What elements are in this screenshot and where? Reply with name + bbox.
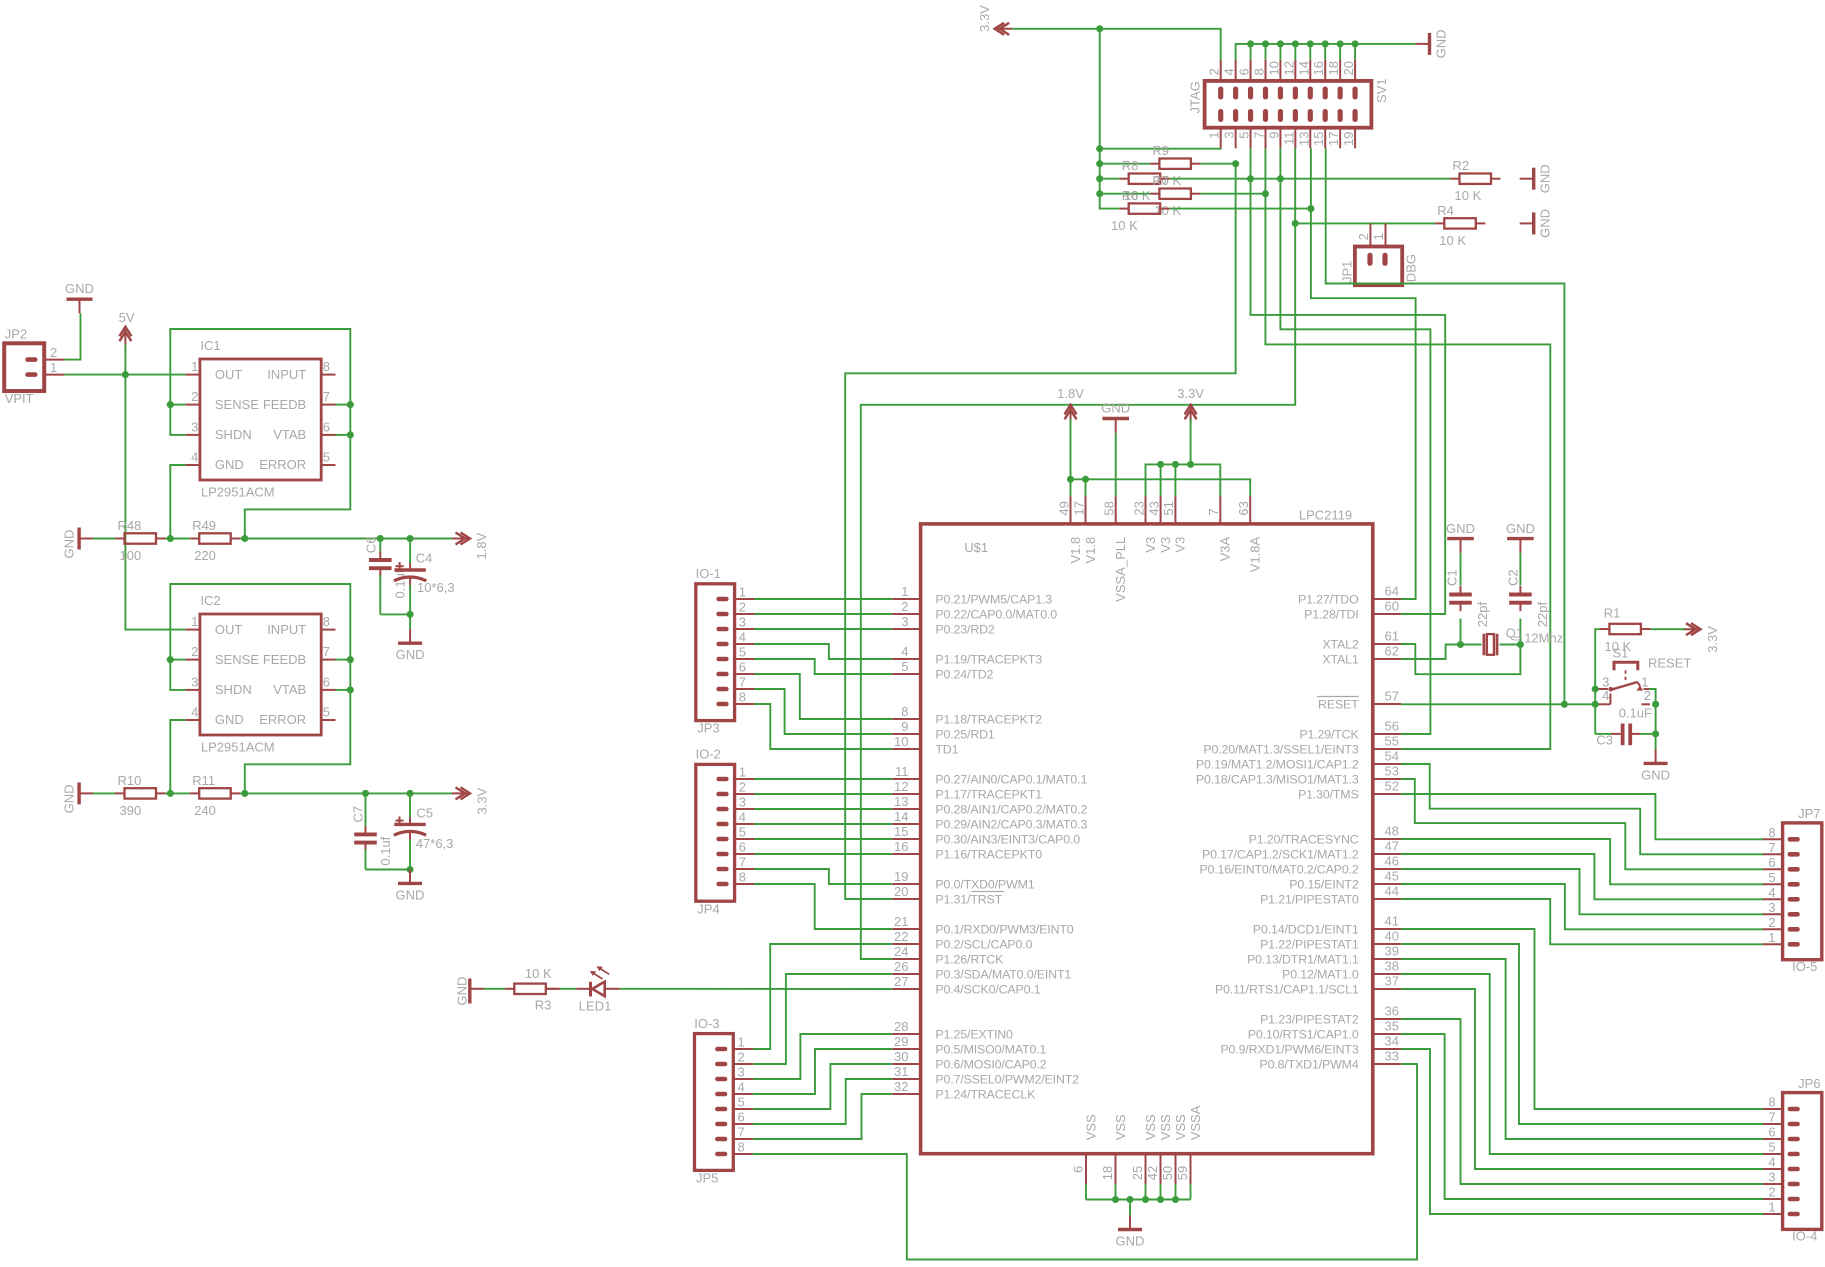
- pin 30 P0.6/MOSI0/CAP0.2: [892, 1049, 1046, 1071]
- svg-text:1: 1: [901, 584, 908, 599]
- svg-text:P0.27/AIN0/CAP0.1/MAT0.1: P0.27/AIN0/CAP0.1/MAT0.1: [935, 772, 1087, 786]
- svg-text:10 K: 10 K: [1111, 218, 1138, 233]
- resistor R8 10K: [1119, 158, 1170, 203]
- svg-text:47*6,3: 47*6,3: [416, 836, 454, 851]
- svg-text:8: 8: [323, 359, 330, 374]
- svg-text:7: 7: [323, 644, 330, 659]
- svg-text:60: 60: [1385, 599, 1399, 614]
- pin 39 P0.13/DTR1/MAT1.1: [1247, 944, 1401, 967]
- connector JP4 (IO-2): [696, 747, 755, 917]
- pin 26 P0.3/SDA/MAT0.0/EINT1: [892, 959, 1071, 981]
- pin 48 P1.20/TRACESYNC: [1249, 824, 1401, 847]
- svg-text:C5: C5: [416, 806, 433, 821]
- wire RTCK (JTAG11-MCU24): [1294, 148, 1296, 223]
- pin 55 P0.20/MAT1.3/SSEL1/EINT3: [1203, 734, 1401, 757]
- svg-text:1: 1: [739, 765, 746, 780]
- wire IC2 SENSE/SHDN loop: [170, 584, 350, 793]
- pin 57 RESET: [1317, 689, 1401, 712]
- wire 3.3V to pins 23/43/51/7: [1190, 419, 1192, 465]
- pin 27 P0.4/SCK0/CAP0.1: [892, 974, 1040, 996]
- svg-text:10: 10: [894, 734, 908, 749]
- svg-text:20: 20: [894, 884, 908, 899]
- svg-text:P0.11/RTS1/CAP1.1/SCL1: P0.11/RTS1/CAP1.1/SCL1: [1215, 982, 1359, 996]
- svg-text:R4: R4: [1437, 203, 1454, 218]
- svg-text:4: 4: [191, 450, 198, 465]
- svg-text:30: 30: [894, 1049, 908, 1064]
- wire XTAL2 (pin61): [1401, 644, 1520, 674]
- svg-text:58: 58: [1102, 501, 1117, 515]
- IC U$1 LPC2119: [921, 508, 1373, 1154]
- pin 10 TD1: [892, 734, 958, 756]
- svg-text:49: 49: [1056, 501, 1071, 515]
- svg-text:GND: GND: [1434, 30, 1449, 59]
- svg-text:54: 54: [1385, 749, 1399, 764]
- svg-text:VSS: VSS: [1083, 1114, 1098, 1140]
- svg-text:GND: GND: [1641, 767, 1670, 782]
- connector JP6 (IO-4): [1762, 1076, 1821, 1244]
- wire 1.8V to pins 49/17/63: [1070, 419, 1072, 480]
- supply 3.3V (MCU): [1177, 386, 1204, 423]
- svg-text:JTAG: JTAG: [1187, 81, 1202, 113]
- svg-text:5V: 5V: [119, 310, 135, 325]
- pin 37 P0.11/RTS1/CAP1.1/SCL1: [1215, 974, 1401, 997]
- junction R7-pin7: [1262, 190, 1269, 197]
- svg-text:17: 17: [1071, 501, 1086, 515]
- pin 51 V3: [1161, 496, 1188, 553]
- wire switch to C3: [1594, 704, 1596, 734]
- svg-text:R3: R3: [535, 998, 552, 1013]
- junction C3 right: [1652, 730, 1659, 737]
- svg-text:1: 1: [191, 359, 198, 374]
- pin 34 P0.9/RXD1/PWM6/EINT3: [1220, 1034, 1401, 1057]
- wire GND-R10: [93, 792, 115, 794]
- svg-text:31: 31: [894, 1064, 908, 1079]
- svg-text:P0.10/RTS1/CAP1.0: P0.10/RTS1/CAP1.0: [1248, 1027, 1359, 1041]
- svg-text:63: 63: [1236, 501, 1251, 515]
- svg-text:P0.16/EINT0/MAT0.2/CAP0.2: P0.16/EINT0/MAT0.2/CAP0.2: [1199, 862, 1358, 876]
- svg-text:P1.22/PIPESTAT1: P1.22/PIPESTAT1: [1260, 937, 1359, 951]
- wire MCU34-JP6.1: [1401, 1049, 1763, 1214]
- svg-text:1.8V: 1.8V: [1057, 386, 1084, 401]
- pin 23 V3: [1131, 496, 1158, 553]
- pin 22 P0.2/SCL/CAP0.0: [892, 929, 1032, 951]
- pin 59 VSSA: [1175, 1105, 1203, 1184]
- svg-text:4: 4: [738, 1080, 745, 1095]
- svg-text:INPUT: INPUT: [267, 622, 306, 637]
- svg-text:14: 14: [894, 809, 908, 824]
- svg-text:20: 20: [1341, 61, 1356, 75]
- svg-text:1: 1: [739, 585, 746, 600]
- svg-text:IO-2: IO-2: [696, 747, 721, 762]
- svg-text:JP2: JP2: [5, 327, 27, 342]
- svg-text:JP4: JP4: [697, 901, 719, 916]
- pin 5 P0.24/TD2: [892, 659, 993, 681]
- svg-text:7: 7: [739, 675, 746, 690]
- svg-text:4: 4: [191, 705, 198, 720]
- svg-text:3.3V: 3.3V: [977, 5, 992, 32]
- svg-text:R2: R2: [1453, 158, 1470, 173]
- junction C4 top: [407, 535, 414, 542]
- pin 60 P1.28/TDI: [1304, 599, 1401, 622]
- svg-text:GND: GND: [1538, 209, 1553, 238]
- svg-text:P1.21/PIPESTAT0: P1.21/PIPESTAT0: [1260, 892, 1359, 906]
- pin 50 VSS: [1160, 1114, 1188, 1184]
- svg-text:3: 3: [1768, 900, 1775, 915]
- svg-text:10 K: 10 K: [1455, 188, 1482, 203]
- capacitor C2 22pf: [1506, 553, 1550, 645]
- svg-text:2: 2: [1644, 688, 1651, 703]
- svg-text:R49: R49: [192, 518, 216, 533]
- pin 32 P1.24/TRACECLK: [892, 1079, 1036, 1101]
- svg-text:R48: R48: [118, 518, 142, 533]
- wire JP3.3-MCU3: [754, 628, 892, 630]
- wire GND-R48: [93, 538, 115, 540]
- junction C5 bottom: [406, 866, 413, 873]
- svg-text:13: 13: [1296, 132, 1311, 146]
- ground (JTAG): [1416, 30, 1449, 59]
- svg-text:41: 41: [1385, 914, 1399, 929]
- resistor R3 10K: [484, 966, 555, 1013]
- svg-text:P0.30/AIN3/EINT3/CAP0.0: P0.30/AIN3/EINT3/CAP0.0: [935, 832, 1080, 846]
- junction R11 out: [241, 790, 248, 797]
- junction R6-pin13: [1307, 205, 1314, 212]
- resistor R48 100: [115, 518, 166, 563]
- pin 35 P0.10/RTS1/CAP1.0: [1248, 1019, 1401, 1042]
- wire 5V net: [64, 374, 185, 376]
- wire MCU28-JP5.3: [753, 1034, 892, 1079]
- svg-text:4: 4: [1602, 688, 1609, 703]
- svg-text:P0.8/TXD1/PWM4: P0.8/TXD1/PWM4: [1259, 1057, 1358, 1071]
- connector JP3 (IO-1): [696, 566, 755, 736]
- svg-text:R1: R1: [1604, 606, 1621, 621]
- pin 21 P0.1/RXD0/PWM3/EINT0: [892, 914, 1074, 936]
- svg-text:P1.26/RTCK: P1.26/RTCK: [935, 952, 1004, 966]
- junction R4-pin11: [1292, 220, 1299, 227]
- svg-text:0.1uf: 0.1uf: [393, 569, 408, 598]
- wire MCU46-JP7.3: [1401, 869, 1763, 914]
- svg-text:GND: GND: [65, 281, 94, 296]
- ground (R10): [62, 782, 94, 813]
- svg-text:V3: V3: [1143, 537, 1158, 553]
- wire TDO (JTAG13-MCU64): [1310, 148, 1312, 208]
- capacitor C5 47*6,3 (polarized): [394, 793, 454, 869]
- svg-text:V1.8A: V1.8A: [1248, 536, 1263, 572]
- wire JP4.2-MCU12: [754, 793, 892, 795]
- svg-text:33: 33: [1385, 1049, 1399, 1064]
- wire switch 3-4 tie: [1594, 689, 1596, 704]
- wire JTAG GND bus: [1236, 44, 1416, 60]
- svg-text:P0.9/RXD1/PWM6/EINT3: P0.9/RXD1/PWM6/EINT3: [1220, 1042, 1358, 1056]
- svg-text:4: 4: [901, 644, 908, 659]
- wire TRST (JTAG3-MCU20): [845, 164, 1235, 899]
- svg-text:P1.29/TCK: P1.29/TCK: [1299, 727, 1359, 741]
- junction pin17: [1082, 476, 1089, 483]
- svg-text:3: 3: [739, 795, 746, 810]
- supply 3.3V (R1): [1683, 623, 1720, 653]
- pin 14 P0.29/AIN2/CAP0.3/MAT0.3: [892, 809, 1087, 831]
- svg-text:P0.25/RD1: P0.25/RD1: [935, 727, 995, 741]
- svg-text:12: 12: [1281, 61, 1296, 75]
- svg-text:40: 40: [1385, 929, 1399, 944]
- ground (C5/C7): [396, 869, 425, 902]
- svg-text:C7: C7: [350, 806, 365, 823]
- connector JP5 (IO-3): [694, 1016, 753, 1186]
- pin 2 P0.22/CAP0.0/MAT0.0: [892, 599, 1057, 621]
- svg-text:8: 8: [739, 870, 746, 885]
- wire R9 to JTAG pin3: [1200, 163, 1235, 165]
- svg-text:LED1: LED1: [579, 999, 612, 1014]
- svg-text:17: 17: [1326, 132, 1341, 146]
- svg-text:OUT: OUT: [215, 367, 243, 382]
- svg-text:P0.17/CAP1.2/SCK1/MAT1.2: P0.17/CAP1.2/SCK1/MAT1.2: [1202, 847, 1359, 861]
- svg-text:4: 4: [1768, 1155, 1775, 1170]
- wire MCU31-JP5.6: [753, 1079, 892, 1124]
- svg-text:GND: GND: [62, 785, 77, 814]
- svg-text:IO-3: IO-3: [694, 1016, 719, 1031]
- svg-text:GND: GND: [62, 530, 77, 559]
- svg-text:JP3: JP3: [697, 721, 719, 736]
- wire MCU22-JP5.1: [753, 944, 892, 1049]
- svg-text:15: 15: [1311, 132, 1326, 146]
- pin 18 VSS: [1100, 1114, 1128, 1184]
- svg-text:21: 21: [894, 914, 908, 929]
- wire 3.3V pullup vertical: [1100, 29, 1119, 209]
- svg-text:4: 4: [739, 630, 746, 645]
- svg-text:P1.19/TRACEPKT3: P1.19/TRACEPKT3: [935, 652, 1042, 666]
- svg-text:GND: GND: [215, 457, 244, 472]
- svg-text:IC2: IC2: [200, 593, 220, 608]
- svg-text:SHDN: SHDN: [215, 427, 252, 442]
- svg-text:5: 5: [901, 659, 908, 674]
- svg-text:7: 7: [1206, 508, 1221, 515]
- svg-text:P0.0/TXD0/PWM1: P0.0/TXD0/PWM1: [935, 877, 1034, 891]
- svg-text:C3: C3: [1596, 732, 1613, 747]
- wire MCU47-JP7.4: [1401, 854, 1763, 899]
- svg-text:34: 34: [1385, 1034, 1399, 1049]
- svg-text:SHDN: SHDN: [215, 682, 252, 697]
- LED LED1: [546, 966, 620, 1013]
- svg-text:SENSE: SENSE: [215, 652, 259, 667]
- connector SV1 JTAG: [1187, 60, 1389, 149]
- svg-text:1: 1: [1768, 930, 1775, 945]
- svg-text:3: 3: [191, 674, 198, 689]
- wire MCU36-JP6.3: [1401, 1019, 1763, 1184]
- svg-text:R9: R9: [1152, 143, 1169, 158]
- capacitor C6 0.1uf: [363, 537, 407, 615]
- wire R8 left: [1100, 178, 1120, 180]
- ground (C1): [1446, 521, 1475, 553]
- svg-text:8: 8: [1768, 825, 1775, 840]
- wire MCU41-JP6.8: [1401, 929, 1763, 1109]
- svg-text:P1.25/EXTIN0: P1.25/EXTIN0: [935, 1027, 1013, 1041]
- pin 42 VSS: [1145, 1114, 1173, 1184]
- resistor R49 220: [190, 518, 241, 563]
- svg-text:VSSA: VSSA: [1188, 1105, 1203, 1140]
- ground (R2): [1520, 164, 1553, 193]
- wire R1 right to 3.3V: [1650, 628, 1685, 630]
- svg-text:JP5: JP5: [696, 1171, 718, 1186]
- pin 40 P1.22/PIPESTAT1: [1260, 929, 1401, 952]
- junctions VSS bus: [1112, 1196, 1119, 1203]
- svg-text:5: 5: [323, 705, 330, 720]
- svg-text:48: 48: [1385, 824, 1399, 839]
- svg-text:GND: GND: [1446, 521, 1475, 536]
- pin 12 P1.17/TRACEPKT1: [892, 779, 1042, 801]
- pin 38 P0.12/MAT1.0: [1282, 959, 1401, 982]
- resistor R9 10K: [1150, 143, 1201, 188]
- wire R10-R11: [166, 792, 190, 794]
- svg-text:P0.3/SDA/MAT0.0/EINT1: P0.3/SDA/MAT0.0/EINT1: [935, 967, 1071, 981]
- svg-text:10 K: 10 K: [525, 966, 552, 981]
- ground (R48): [62, 528, 94, 559]
- svg-text:52: 52: [1385, 779, 1399, 794]
- wire JP3.5-MCU5: [754, 659, 892, 674]
- wire TMS (JTAG7-MCU55): [1264, 148, 1266, 193]
- svg-text:XTAL2: XTAL2: [1322, 637, 1358, 651]
- svg-text:TD1: TD1: [935, 742, 958, 756]
- junction R9 left: [1096, 160, 1103, 167]
- pin 11 P0.27/AIN0/CAP0.1/MAT0.1: [892, 764, 1087, 786]
- svg-text:7: 7: [323, 389, 330, 404]
- svg-text:P1.16/TRACEPKT0: P1.16/TRACEPKT0: [935, 847, 1042, 861]
- wire JP4.6-MCU16: [754, 853, 892, 855]
- svg-text:GND: GND: [1101, 401, 1130, 416]
- pin 33 P0.8/TXD1/PWM4: [1259, 1049, 1401, 1072]
- wire RESET (JTAG15): [1326, 148, 1565, 704]
- svg-text:P0.1/RXD0/PWM3/EINT0: P0.1/RXD0/PWM3/EINT0: [935, 922, 1073, 936]
- connector JP7 (IO-5): [1762, 806, 1821, 974]
- svg-text:26: 26: [894, 959, 908, 974]
- svg-text:3: 3: [738, 1065, 745, 1080]
- wire C6-C4 bottom: [380, 613, 410, 615]
- svg-text:ERROR: ERROR: [259, 712, 306, 727]
- resistor R1 10K: [1600, 606, 1651, 655]
- wire MCU40-JP6.7: [1401, 944, 1763, 1124]
- wire IC1 GND to divider: [170, 465, 185, 539]
- svg-text:3.3V: 3.3V: [1705, 626, 1720, 653]
- ground (VSS): [1116, 1216, 1145, 1249]
- junction C4 bottom: [407, 611, 414, 618]
- svg-text:1: 1: [1371, 233, 1386, 240]
- pin 45 P0.15/EINT2: [1289, 869, 1401, 892]
- svg-text:V3: V3: [1173, 537, 1188, 553]
- svg-text:FEEDB: FEEDB: [263, 652, 306, 667]
- svg-text:P1.17/TRACEPKT1: P1.17/TRACEPKT1: [935, 787, 1042, 801]
- svg-text:3: 3: [901, 614, 908, 629]
- pin 24 P1.26/RTCK: [892, 944, 1004, 966]
- svg-text:R11: R11: [192, 773, 215, 788]
- wire JP3.2-MCU2: [754, 613, 892, 615]
- junction XTAL right: [1517, 641, 1524, 648]
- junction R48-R49: [167, 535, 174, 542]
- svg-text:VSS: VSS: [1173, 1114, 1188, 1140]
- svg-text:R7: R7: [1152, 173, 1169, 188]
- wire XTAL1 (pin62): [1401, 645, 1461, 660]
- wire R6 to JTAG pin13: [1170, 208, 1311, 210]
- pin 62 XTAL1: [1322, 644, 1401, 667]
- svg-text:15: 15: [894, 824, 908, 839]
- wire TCK (JTAG9-MCU56): [1279, 148, 1281, 178]
- svg-text:56: 56: [1385, 719, 1399, 734]
- svg-text:V3A: V3A: [1218, 536, 1233, 561]
- ground (R4): [1520, 209, 1553, 238]
- junction C6 top: [377, 535, 384, 542]
- ground (JP2 pin 2): [65, 281, 94, 313]
- svg-text:C2: C2: [1506, 569, 1521, 586]
- svg-text:7: 7: [738, 1125, 745, 1140]
- svg-text:43: 43: [1146, 501, 1161, 515]
- svg-text:11: 11: [1281, 132, 1296, 146]
- svg-text:16: 16: [1311, 61, 1326, 75]
- svg-text:2: 2: [1207, 68, 1222, 75]
- wire 1.8V rail: [240, 538, 453, 540]
- wire MCU52-JP7.8: [1401, 794, 1763, 839]
- svg-text:GND: GND: [454, 977, 469, 1006]
- pin 44 P1.21/PIPESTAT0: [1260, 884, 1401, 907]
- junction IC1 VTAB: [347, 431, 354, 438]
- resistor R10 390: [115, 773, 166, 818]
- wire MCU39-JP6.6: [1401, 959, 1763, 1139]
- svg-text:P0.28/AIN1/CAP0.2/MAT0.2: P0.28/AIN1/CAP0.2/MAT0.2: [935, 802, 1087, 816]
- svg-text:P1.31/TRST: P1.31/TRST: [935, 892, 1002, 906]
- svg-text:240: 240: [194, 803, 216, 818]
- svg-text:9: 9: [1266, 132, 1281, 139]
- svg-text:2: 2: [901, 599, 908, 614]
- pin 15 P0.30/AIN3/EINT3/CAP0.0: [892, 824, 1080, 846]
- svg-text:P0.22/CAP0.0/MAT0.0: P0.22/CAP0.0/MAT0.0: [935, 607, 1057, 621]
- svg-text:2: 2: [739, 600, 746, 615]
- svg-text:5: 5: [738, 1095, 745, 1110]
- wire LED1 to pin27: [620, 988, 893, 990]
- svg-text:10 K: 10 K: [1439, 233, 1466, 248]
- svg-text:11: 11: [895, 764, 909, 779]
- wire MCU30-JP5.5: [753, 1064, 892, 1109]
- IC IC2 LP2951ACM: [186, 593, 336, 755]
- svg-text:22pf: 22pf: [1535, 602, 1550, 628]
- resistor R6 10K: [1119, 188, 1170, 214]
- svg-text:7: 7: [1768, 840, 1775, 855]
- svg-text:P1.20/TRACESYNC: P1.20/TRACESYNC: [1249, 832, 1359, 846]
- junction switch pin4: [1592, 701, 1599, 708]
- svg-text:6: 6: [1768, 1125, 1775, 1140]
- junction IC2 VTAB: [347, 686, 354, 693]
- svg-text:6: 6: [739, 660, 746, 675]
- pin 47 P0.17/CAP1.2/SCK1/MAT1.2: [1202, 839, 1401, 862]
- junction switch pin2: [1652, 701, 1659, 708]
- wire switch right side: [1649, 689, 1656, 704]
- svg-text:GND: GND: [1538, 164, 1553, 193]
- pin 8 P1.18/TRACEPKT2: [892, 704, 1042, 726]
- svg-text:R6: R6: [1122, 188, 1139, 203]
- pin 25 VSS: [1130, 1114, 1158, 1184]
- svg-text:2: 2: [1356, 233, 1371, 240]
- junction 3.3V pullup feed: [1096, 25, 1103, 32]
- svg-text:P0.7/SSEL0/PWM2/EINT2: P0.7/SSEL0/PWM2/EINT2: [935, 1072, 1079, 1086]
- svg-text:6: 6: [738, 1110, 745, 1125]
- svg-text:JP1: JP1: [1340, 261, 1355, 283]
- svg-text:39: 39: [1385, 944, 1399, 959]
- svg-text:2: 2: [50, 345, 57, 360]
- svg-text:5: 5: [323, 450, 330, 465]
- junction IC2 FEEDB: [347, 656, 354, 663]
- svg-text:220: 220: [194, 548, 216, 563]
- svg-text:VSS: VSS: [1158, 1114, 1173, 1140]
- svg-text:5: 5: [1768, 870, 1775, 885]
- svg-text:2: 2: [1768, 1185, 1775, 1200]
- pin 52 P1.30/TMS: [1298, 779, 1401, 802]
- svg-text:6: 6: [739, 840, 746, 855]
- svg-text:2: 2: [739, 780, 746, 795]
